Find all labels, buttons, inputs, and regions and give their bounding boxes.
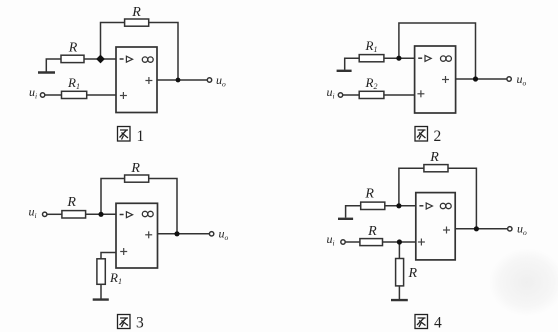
caption 图 2	[415, 127, 428, 142]
node B (fig1 output junction)	[176, 78, 181, 83]
terminal u_o (fig3)	[209, 232, 213, 236]
node D (fig2 output junction)	[473, 76, 478, 81]
resistor R (fig3 input)	[62, 211, 86, 218]
svg-text:1: 1	[137, 128, 145, 145]
resistor R (fig4 vertical)	[396, 259, 404, 286]
op-amp U1 output plus	[145, 77, 152, 84]
resistor R (fig3 feedback)	[125, 175, 149, 182]
caption 图 3	[118, 315, 131, 329]
op-amp U4 triangle	[426, 203, 432, 209]
ground (fig2)	[337, 70, 352, 72]
terminal u_o (fig4)	[508, 227, 512, 231]
resistor R2 (fig2)	[359, 91, 384, 98]
wire R1 to inverting input	[384, 57, 415, 59]
op-amp U2	[415, 46, 456, 113]
wire ground to R1 (fig2)	[345, 58, 360, 70]
wire feedback up from node E	[101, 179, 125, 215]
resistor R (fig4 feedback)	[424, 165, 448, 172]
op-amp U4 minus mark	[419, 205, 423, 207]
terminal u_o (fig2)	[507, 77, 511, 81]
terminal u_i (fig3)	[43, 212, 47, 216]
resistor R1 (fig3 vertical)	[97, 259, 105, 285]
wire R1 to ground	[100, 284, 102, 299]
node G (fig4 inverting junction)	[396, 203, 401, 208]
wire feedback to output	[448, 168, 476, 229]
wire R vertical to ground	[398, 286, 400, 299]
svg-text:R: R	[429, 150, 439, 165]
wire R to inverting input	[86, 213, 116, 215]
svg-text:R: R	[364, 187, 374, 202]
svg-text:R: R	[130, 161, 140, 176]
op-amp U4 non-inverting plus	[418, 239, 425, 246]
wire output (fig1)	[157, 79, 208, 81]
op-amp U3 minus mark	[120, 214, 124, 216]
svg-text:2: 2	[434, 128, 442, 145]
op-amp U1 non-inverting plus	[120, 92, 127, 99]
wire feedback up from node A	[101, 23, 125, 60]
wire feedback to output	[149, 179, 177, 234]
node A (fig1 inverting junction)	[96, 55, 105, 64]
node C (fig2 inverting junction)	[396, 56, 401, 61]
node I (fig4 output junction)	[474, 226, 479, 231]
op-amp U3 non-inverting plus	[120, 248, 127, 255]
wire feedback up from node G	[399, 168, 424, 206]
ground (fig4 bottom)	[391, 299, 408, 301]
svg-text:R: R	[408, 266, 418, 281]
terminal u_i (fig2)	[338, 93, 342, 97]
node E (fig3 inverting junction)	[98, 212, 103, 217]
resistor R (fig4 inverting)	[361, 202, 385, 209]
op-amp U3	[116, 203, 158, 268]
op-amp U2 infinity	[441, 56, 452, 61]
svg-text:R: R	[68, 41, 78, 56]
svg-text:R: R	[131, 5, 141, 20]
resistor R1 (fig1)	[62, 91, 87, 98]
wire R to inverting node	[84, 58, 116, 60]
wire u_i input to R1	[45, 94, 62, 96]
op-amp U1 minus mark	[120, 58, 124, 60]
resistor R (fig1 inverting input)	[61, 55, 84, 62]
wire output (fig4)	[455, 228, 508, 230]
ground (fig4 left)	[338, 218, 353, 220]
op-amp U1	[116, 47, 157, 113]
wire output (fig2)	[456, 78, 508, 80]
wire u_i to R (fig4 non-inverting)	[345, 241, 360, 243]
op-amp U4	[416, 193, 455, 260]
svg-text:3: 3	[136, 315, 144, 332]
wire R to non-inverting input	[383, 241, 416, 243]
resistor R (fig1 feedback)	[125, 19, 149, 26]
wire node H down to R vertical	[398, 242, 400, 259]
ground (fig3)	[93, 298, 109, 300]
wire non-inverting to R1 (fig3)	[101, 253, 116, 259]
ground (fig1)	[38, 71, 55, 73]
wire ground to R (fig4 inverting)	[346, 206, 361, 218]
resistor R1 (fig2)	[359, 55, 384, 62]
wire u_i to R2	[343, 94, 360, 96]
wire R2 to non-inverting input	[384, 94, 415, 96]
wire output (fig3)	[158, 233, 210, 235]
wire R to inverting input	[385, 205, 416, 207]
op-amp U2 minus mark	[418, 57, 422, 59]
op-amp U3 infinity	[142, 211, 153, 216]
svg-text:4: 4	[434, 315, 442, 332]
wire u_i to R (fig3)	[47, 213, 62, 215]
caption 图 4	[415, 315, 428, 329]
resistor R (fig4 non-inverting)	[360, 239, 383, 246]
terminal u_o (fig1)	[207, 78, 211, 82]
op-amp U2 non-inverting plus	[417, 90, 424, 97]
op-amp U2 triangle	[425, 55, 431, 61]
wire R1 to non-inverting input	[87, 94, 116, 96]
svg-text:R: R	[367, 224, 377, 239]
svg-text:R: R	[66, 195, 76, 210]
op-amp U2 output plus	[442, 76, 449, 83]
op-amp U1 triangle	[126, 56, 132, 62]
op-amp U3 triangle	[126, 212, 132, 218]
op-amp U4 output plus	[443, 227, 450, 234]
op-amp U1 infinity	[142, 57, 153, 62]
wire feedback to output	[149, 23, 178, 81]
terminal u_i (fig4)	[341, 240, 345, 244]
op-amp U4 infinity	[440, 203, 451, 208]
terminal u_i (fig1)	[40, 93, 44, 97]
node H (fig4 non-inverting junction)	[397, 239, 402, 244]
wire feedback (fig2 direct)	[399, 23, 476, 79]
caption 图 1	[118, 127, 131, 142]
op-amp U3 output plus	[145, 231, 152, 238]
node F (fig3 output junction)	[174, 231, 179, 236]
wire ground to resistor R (fig1)	[46, 59, 61, 72]
